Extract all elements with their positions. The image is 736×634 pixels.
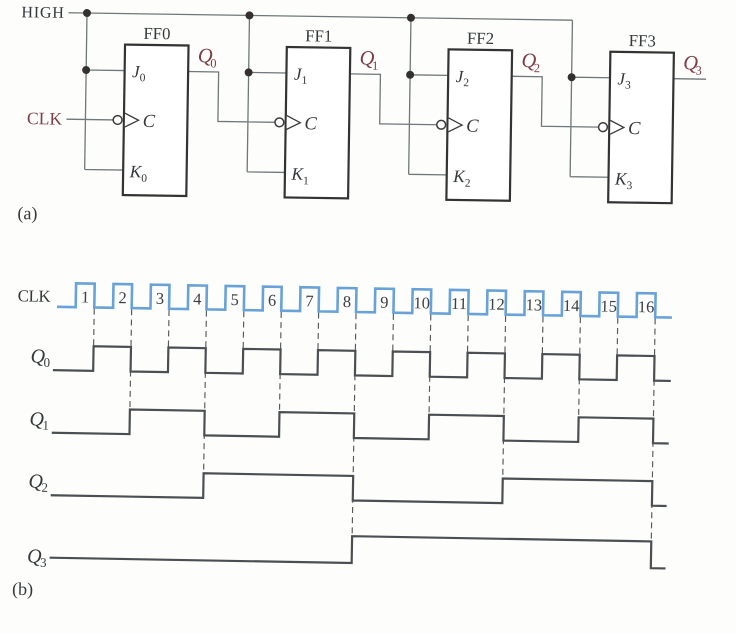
- svg-text:C: C: [628, 119, 641, 139]
- svg-text:16: 16: [638, 297, 655, 316]
- svg-text:2: 2: [118, 288, 127, 307]
- svg-text:0: 0: [141, 173, 147, 185]
- svg-text:1: 1: [303, 175, 309, 187]
- svg-text:8: 8: [343, 292, 352, 311]
- svg-text:5: 5: [230, 290, 239, 309]
- svg-text:3: 3: [625, 79, 631, 91]
- svg-text:4: 4: [193, 289, 202, 308]
- svg-text:CLK: CLK: [18, 286, 51, 306]
- svg-text:3: 3: [627, 180, 633, 192]
- svg-text:3: 3: [156, 289, 165, 308]
- svg-text:3: 3: [696, 64, 702, 78]
- svg-text:7: 7: [305, 291, 314, 310]
- svg-text:2: 2: [465, 178, 471, 190]
- svg-text:C: C: [304, 114, 317, 134]
- svg-text:10: 10: [413, 293, 430, 312]
- svg-text:FF2: FF2: [467, 29, 494, 48]
- svg-text:2: 2: [41, 480, 48, 495]
- svg-text:9: 9: [380, 293, 389, 312]
- svg-text:2: 2: [463, 77, 469, 89]
- svg-text:0: 0: [210, 56, 216, 70]
- svg-text:0: 0: [140, 72, 146, 84]
- svg-text:HIGH: HIGH: [21, 4, 64, 22]
- svg-text:2: 2: [534, 61, 540, 75]
- svg-text:0: 0: [43, 355, 50, 370]
- svg-text:FF3: FF3: [629, 31, 656, 50]
- svg-text:1: 1: [81, 287, 90, 306]
- svg-text:3: 3: [40, 555, 47, 570]
- svg-text:15: 15: [600, 296, 617, 315]
- svg-text:11: 11: [451, 294, 467, 313]
- svg-text:14: 14: [563, 296, 580, 315]
- svg-text:CLK: CLK: [27, 108, 63, 129]
- svg-text:FF0: FF0: [143, 24, 170, 43]
- svg-text:1: 1: [372, 59, 378, 73]
- svg-text:FF1: FF1: [305, 26, 332, 45]
- svg-text:12: 12: [488, 295, 505, 314]
- svg-text:C: C: [466, 117, 479, 137]
- svg-text:6: 6: [268, 291, 277, 310]
- svg-text:(b): (b): [12, 579, 33, 600]
- svg-text:1: 1: [301, 75, 307, 87]
- svg-text:13: 13: [525, 295, 542, 314]
- svg-text:1: 1: [42, 418, 49, 433]
- svg-text:C: C: [143, 112, 156, 132]
- svg-text:(a): (a): [17, 203, 37, 224]
